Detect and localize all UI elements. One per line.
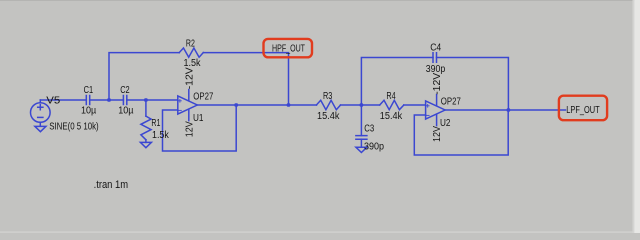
net label HPF_OUT box [264, 39, 313, 57]
wire R3 to node C [341, 104, 380, 106]
U2 top power stub [436, 95, 438, 106]
svg-text:HPF_OUT: HPF_OUT [272, 44, 305, 55]
svg-text:R4: R4 [386, 91, 396, 102]
svg-text:10µ: 10µ [118, 106, 133, 117]
U1 bottom power stub [188, 109, 190, 120]
wire main input [40, 99, 86, 101]
wire V5 top stub [39, 100, 41, 103]
wire node C up to C4 [361, 58, 433, 106]
ground under R1 [140, 142, 151, 147]
svg-text:C2: C2 [120, 85, 130, 96]
wire R2 to HPF_OUT corner [203, 53, 288, 105]
capacitor C2 [123, 96, 126, 105]
svg-text:C1: C1 [84, 85, 94, 96]
svg-text:C3: C3 [364, 123, 374, 134]
wire C1 to node A [90, 99, 124, 101]
svg-text:390p: 390p [364, 142, 384, 153]
U1 plus mark [179, 99, 182, 102]
svg-text:OP27: OP27 [193, 91, 213, 102]
wire node B down to R1 [145, 100, 147, 116]
wire U1 output [197, 104, 316, 106]
capacitor C3 [356, 136, 367, 140]
U2 plus mark [426, 104, 429, 107]
svg-text:V5: V5 [46, 95, 60, 106]
wire U1 feedback [163, 105, 237, 151]
svg-text:1.5k: 1.5k [152, 130, 170, 141]
node junction C2-R1 [144, 98, 148, 102]
svg-text:-12V: -12V [432, 72, 443, 94]
wire C2 to op-amp input [127, 99, 178, 101]
resistor R2 [179, 48, 203, 57]
svg-text:-12V: -12V [184, 67, 195, 89]
resistor R4 [380, 100, 404, 109]
svg-text:C4: C4 [430, 43, 441, 54]
capacitor C1 [86, 96, 89, 105]
svg-text:R1: R1 [151, 118, 160, 129]
capacitor C4 [433, 53, 437, 62]
node junction LPF_OUT [507, 108, 511, 112]
voltage source V5 [31, 103, 51, 123]
node junction HPF_OUT [287, 103, 291, 107]
svg-text:10µ: 10µ [81, 106, 96, 117]
V5 minus mark [38, 116, 43, 118]
U1 minus mark [179, 109, 182, 111]
node junction C1-C2/R2 [107, 98, 111, 102]
wire U2 feedback [414, 110, 508, 155]
node junction U1 output feedback [234, 103, 238, 107]
node junction R3-R4-C3-C4 [360, 103, 364, 107]
svg-text:12V: 12V [184, 121, 195, 137]
resistor R3 [316, 100, 340, 109]
svg-text:15.4k: 15.4k [380, 111, 403, 122]
svg-text:SINE(0 5 10k): SINE(0 5 10k) [49, 122, 98, 133]
U2 minus mark [426, 114, 429, 116]
wire C4 to output corner [437, 58, 509, 111]
svg-text:.tran 1m: .tran 1m [94, 179, 129, 191]
svg-text:OP27: OP27 [441, 96, 461, 107]
svg-text:R2: R2 [186, 38, 195, 49]
wire node A up to R2 [109, 53, 179, 100]
wire node C down to C3 [360, 105, 362, 136]
wire U2 output [445, 109, 565, 111]
wire R1 to ground [145, 140, 147, 143]
svg-text:R3: R3 [323, 91, 333, 102]
U1 top power stub [188, 90, 190, 101]
svg-text:12V: 12V [432, 126, 443, 142]
U2 bottom power stub [436, 114, 438, 125]
V5 plus mark [38, 105, 43, 110]
svg-text:15.4k: 15.4k [317, 111, 340, 122]
op-amp U2 [426, 101, 446, 119]
ground under C3 [356, 147, 367, 152]
net label LPF_OUT box [559, 96, 607, 121]
wire R4 to op-amp U2 [404, 104, 426, 106]
svg-text:LPF_OUT: LPF_OUT [566, 105, 599, 116]
resistor R1 [141, 116, 151, 140]
wire C3 to ground [360, 139, 362, 147]
ground under V5 [35, 122, 46, 131]
op-amp U1 [178, 96, 198, 114]
